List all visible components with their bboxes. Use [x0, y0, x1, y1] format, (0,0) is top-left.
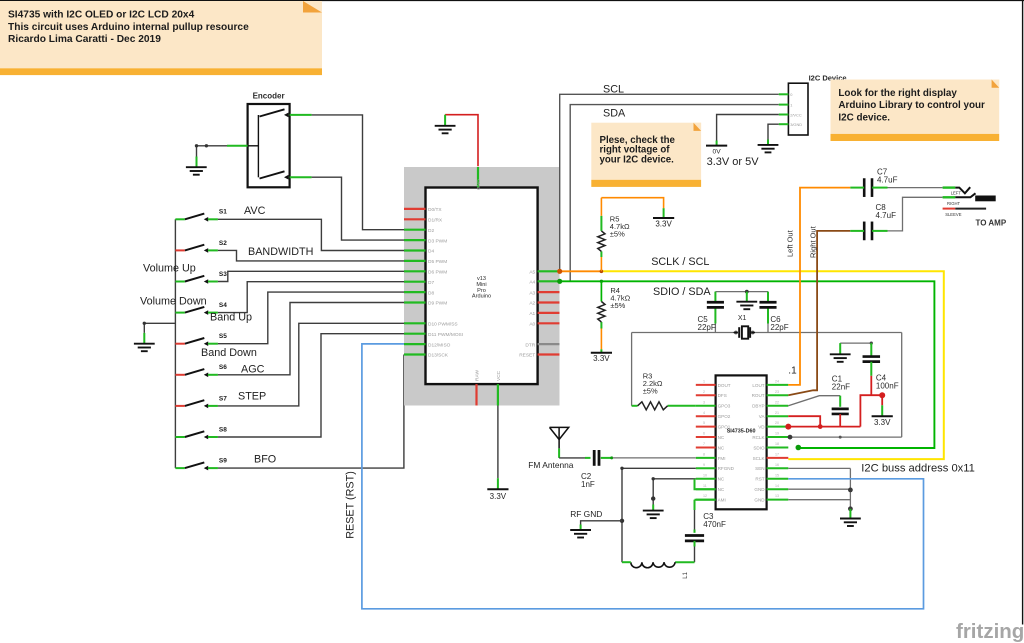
SI4735 pin 8 FMI — [696, 453, 726, 461]
svg-text:2/VCC: 2/VCC — [790, 112, 802, 117]
arduino U2 body — [404, 167, 560, 406]
I2C device U3 body — [788, 83, 808, 135]
wire C4 ground rail — [840, 342, 873, 345]
svg-text:RIGHT: RIGHT — [947, 201, 960, 206]
wire encoder pin B to D3 — [312, 177, 404, 240]
svg-text:NC: NC — [718, 445, 725, 450]
label SDA — [603, 108, 626, 120]
SI4735 pin 24 LOUT — [752, 380, 788, 388]
svg-text:SDIO: SDIO — [753, 445, 765, 450]
svg-text:1: 1 — [790, 102, 792, 107]
SI4735 pin 15 RST — [755, 473, 788, 481]
svg-text:TO AMP: TO AMP — [976, 219, 1007, 228]
wire GND14 gray — [788, 488, 850, 490]
svg-text:I2C buss address 0x11: I2C buss address 0x11 — [861, 463, 975, 475]
svg-text:5: 5 — [703, 421, 705, 425]
svg-text:GPO2: GPO2 — [718, 414, 731, 419]
resistor R5 leads — [600, 198, 602, 272]
label 3.3V or 5V — [707, 156, 760, 168]
junction dot R4 tap — [600, 280, 603, 283]
label I2C buss address — [861, 463, 975, 475]
wire RFGND run — [620, 467, 696, 563]
svg-text:21: 21 — [775, 411, 779, 415]
I2C device pin 0 — [779, 92, 793, 97]
wire C2 to FMI — [601, 456, 696, 459]
svg-text:S7: S7 — [219, 395, 227, 402]
svg-text:D5 PWM: D5 PWM — [428, 259, 447, 265]
svg-text:Volume Down: Volume Down — [140, 296, 207, 308]
wire C4 gnd stem — [839, 343, 841, 354]
ground (switch bank) — [134, 344, 155, 352]
wire S8 to D11 — [218, 334, 404, 437]
wire I2C VCC stem green — [716, 141, 718, 146]
svg-text:D10 PWM/SS: D10 PWM/SS — [428, 322, 458, 328]
svg-text:AMI: AMI — [718, 498, 726, 503]
wire switch bus vertical — [174, 219, 176, 468]
label STEP — [238, 391, 266, 403]
svg-text:SLEEVE: SLEEVE — [945, 212, 962, 217]
right border line — [1022, 0, 1024, 625]
svg-text:8: 8 — [703, 453, 705, 457]
svg-text:I2C device.: I2C device. — [838, 113, 890, 124]
svg-text:fritzing: fritzing — [956, 620, 1024, 643]
svg-text:Arduino Library to control you: Arduino Library to control your — [838, 100, 985, 111]
wire AMI down — [695, 500, 716, 533]
wire C8 to jack RIGHT — [888, 197, 943, 231]
svg-text:18: 18 — [775, 442, 779, 446]
ground (I2C device) — [758, 145, 779, 153]
arduino pin D2 — [404, 228, 434, 234]
ground (SEN/GND) — [840, 519, 861, 527]
wire VCC stem green — [497, 478, 499, 489]
wire RST blue — [362, 344, 924, 609]
svg-text:12: 12 — [703, 494, 707, 498]
svg-text:1: 1 — [703, 380, 705, 384]
svg-text:Volume Up: Volume Up — [143, 263, 196, 275]
arduino pin RAW — [475, 370, 481, 406]
label RESET (RST) — [345, 471, 357, 539]
wire I2C VCC to 0V — [717, 115, 779, 141]
SI4735 pin 5 GPO1 — [696, 421, 731, 429]
svg-text:3.3V: 3.3V — [874, 418, 891, 427]
wire RF GND stem green — [580, 525, 582, 531]
svg-text:STEP: STEP — [238, 391, 266, 403]
label FM Antenna — [528, 460, 574, 470]
svg-text:A5: A5 — [529, 270, 535, 276]
svg-text:D3 PWM: D3 PWM — [428, 238, 447, 244]
SI4735 pin 3 GPO3 — [696, 400, 731, 408]
svg-text:D0/TX: D0/TX — [428, 207, 442, 213]
svg-text:23: 23 — [775, 390, 779, 394]
resistor R3 — [638, 402, 668, 410]
junction dot gnd stem — [848, 506, 853, 511]
svg-text:3/GND: 3/GND — [790, 122, 802, 127]
svg-text:your I2C device.: your I2C device. — [600, 154, 675, 165]
svg-text:S9: S9 — [219, 458, 227, 465]
svg-text:A1: A1 — [529, 311, 535, 317]
capacitor C4 top lead — [870, 343, 872, 356]
svg-text:LOUT: LOUT — [752, 383, 764, 388]
wire encoder pin A stub — [290, 114, 312, 116]
audio jack J1 LEFT stub — [943, 186, 956, 188]
arduino pin D7 — [404, 280, 434, 286]
svg-text:3.3V: 3.3V — [490, 492, 507, 501]
wire encoder common stub — [227, 145, 248, 147]
wire RCLK — [788, 333, 902, 440]
antenna AE1 — [550, 427, 569, 448]
arduino pin D3 PWM — [404, 238, 447, 244]
svg-text:16: 16 — [775, 463, 779, 467]
switch S9 — [175, 458, 227, 471]
capacitor C6 — [759, 302, 776, 307]
label R5 — [610, 215, 630, 239]
wire S1 to D4 — [218, 219, 404, 250]
arduino pin D13/SCK — [404, 353, 449, 359]
switch S7 — [175, 395, 227, 408]
wire L1 right lead — [675, 561, 694, 563]
arduino pin DTR — [525, 342, 559, 348]
svg-text:SEN: SEN — [755, 466, 764, 471]
wire R5 3.3V stem green — [663, 208, 665, 218]
svg-text:GPO3: GPO3 — [718, 404, 731, 409]
capacitor C6 leads — [767, 292, 769, 333]
svg-text:A3: A3 — [529, 290, 535, 296]
SI4735 U1 body — [716, 375, 767, 509]
label C1 — [832, 374, 850, 391]
svg-text:S8: S8 — [219, 426, 227, 433]
label AVC — [244, 205, 266, 217]
wire C1 bottom red — [839, 414, 841, 427]
label BANDWIDTH — [248, 246, 313, 258]
ground (encoder) — [186, 167, 207, 175]
svg-text:FM Antenna: FM Antenna — [528, 460, 574, 470]
capacitor C3 — [685, 536, 704, 541]
arduino pin A3 — [529, 290, 559, 296]
svg-text:This circuit uses Arduino inte: This circuit uses Arduino internal pullu… — [8, 22, 249, 33]
label C6 — [770, 315, 788, 332]
label Volume Down — [140, 296, 207, 308]
junction dot A5/SCL — [557, 269, 562, 274]
junction dot VA-VD — [818, 424, 823, 429]
svg-text:2: 2 — [703, 390, 705, 394]
capacitor C4 bottom lead — [870, 362, 872, 395]
wire VCC down — [497, 406, 499, 479]
svg-text:SI4735 with I2C OLED or I2C LC: SI4735 with I2C OLED or I2C LCD 20x4 — [8, 10, 195, 21]
svg-text:RCLK: RCLK — [752, 435, 765, 440]
svg-text:4.7uF: 4.7uF — [877, 176, 898, 185]
wire crystal gnd stem — [746, 292, 748, 302]
label SCL — [603, 84, 624, 96]
label Volume Up — [143, 263, 196, 275]
svg-text:3.3V or 5V: 3.3V or 5V — [707, 156, 760, 168]
power 3.3V (R4) — [591, 353, 612, 364]
svg-text:S4: S4 — [219, 302, 227, 309]
label AGC — [241, 364, 265, 376]
svg-text:LEFT: LEFT — [951, 191, 962, 196]
switch S4 — [175, 302, 227, 315]
svg-text:6: 6 — [703, 432, 705, 436]
SI4735 pin 17 SCLK — [753, 453, 789, 461]
label SDIO / SDA — [653, 286, 711, 298]
svg-text:±5%: ±5% — [643, 387, 658, 396]
wire switch bus to ground — [143, 322, 176, 333]
svg-text:3: 3 — [703, 400, 705, 404]
capacitor C2 — [594, 450, 599, 466]
label BFO — [254, 454, 276, 466]
wire SEN gray — [788, 468, 850, 509]
wire NC10 to ground — [652, 477, 696, 504]
crystal X1 — [734, 326, 756, 338]
arduino pin A5 — [529, 270, 559, 276]
ground (arduino GND) — [435, 126, 456, 134]
wire S5 to D8 — [218, 292, 404, 344]
audio jack J1 RIGHT stub — [943, 196, 956, 198]
arduino pin D1/RX — [404, 218, 443, 224]
I2C device pin 1 — [779, 102, 793, 107]
svg-text:RST: RST — [755, 477, 764, 482]
SI4735 pin 14 GND — [754, 484, 788, 492]
label C7 — [877, 168, 898, 185]
svg-text:S2: S2 — [219, 240, 227, 247]
svg-text:AGC: AGC — [241, 364, 265, 376]
svg-text:13: 13 — [775, 494, 779, 498]
junction dot A4/SDA — [557, 279, 562, 284]
svg-text:GND: GND — [754, 498, 765, 503]
arduino pin D11 PWM/MOSI — [404, 332, 463, 338]
label L1 — [683, 571, 689, 578]
junction dot NC ground — [651, 496, 655, 500]
svg-text:22pF: 22pF — [698, 323, 716, 332]
wire A4 green to SDIO — [560, 281, 935, 448]
arduino pin D8 — [404, 290, 434, 296]
label C4 — [876, 374, 899, 391]
wire R5 to 3.3V orange — [601, 198, 663, 209]
switch S1 — [175, 209, 227, 222]
label X1 — [738, 315, 747, 322]
note: display library — [831, 80, 1000, 142]
svg-text:FMI: FMI — [718, 456, 726, 461]
svg-text:A2: A2 — [529, 301, 535, 307]
svg-text:Encoder: Encoder — [253, 92, 285, 101]
svg-text:D4: D4 — [428, 249, 434, 255]
svg-text:D11 PWM/MOSI: D11 PWM/MOSI — [428, 332, 463, 338]
svg-text:470nF: 470nF — [703, 520, 726, 529]
wire C7 to jack LEFT — [888, 187, 943, 189]
capacitor C7 leads — [850, 187, 887, 189]
wire C5-C6 top rail — [715, 291, 768, 293]
svg-text:Band Up: Band Up — [210, 312, 252, 324]
power 3.3V (R5) — [653, 218, 674, 229]
SI4735 pin 7 NC — [696, 442, 725, 450]
svg-text:S6: S6 — [219, 364, 227, 371]
svg-text:Look for the right display: Look for the right display — [838, 88, 957, 99]
svg-text:22: 22 — [775, 400, 779, 404]
svg-text:DTR: DTR — [525, 342, 535, 348]
wire S4 to D7 — [218, 282, 404, 313]
wire S2 to D5 — [218, 250, 404, 261]
svg-text:Band Down: Band Down — [201, 347, 257, 359]
audio jack SLEEVE red line — [943, 208, 956, 210]
svg-text:9: 9 — [703, 463, 705, 467]
wire switch ground stem green — [143, 333, 145, 344]
svg-text:SDIO / SDA: SDIO / SDA — [653, 286, 711, 298]
svg-text:22pF: 22pF — [770, 323, 788, 332]
wire GND stem green — [444, 115, 446, 126]
resistor R5 — [598, 231, 605, 252]
wire A5 to R5 orange — [560, 270, 602, 272]
svg-text:3.3V: 3.3V — [593, 354, 610, 363]
svg-text:17: 17 — [775, 453, 779, 457]
svg-text:S5: S5 — [219, 333, 227, 340]
svg-text:SDA: SDA — [603, 108, 626, 120]
label C3 — [703, 512, 726, 529]
svg-text:D6 PWM: D6 PWM — [428, 270, 447, 276]
svg-text:0V: 0V — [713, 149, 722, 156]
SI4735 pin 6 NC — [696, 432, 725, 440]
power 0V — [706, 146, 727, 156]
svg-text:4: 4 — [703, 411, 705, 415]
svg-text:ROUT: ROUT — [752, 393, 765, 398]
svg-text:L1: L1 — [683, 571, 689, 578]
svg-text:.1: .1 — [788, 366, 797, 377]
svg-text:SI4735-D60: SI4735-D60 — [727, 429, 756, 435]
label TO AMP — [976, 219, 1007, 228]
wire encoder pin B stub — [290, 176, 312, 178]
svg-text:VCC: VCC — [496, 370, 502, 381]
SI4735 pin 23 ROUT — [752, 390, 789, 398]
wire S7 to D10 — [218, 323, 404, 406]
fritzing logo — [956, 620, 1024, 643]
I2C device pin 3/GND — [779, 122, 802, 127]
capacitor C8 — [864, 222, 872, 241]
capacitor C5 — [707, 302, 724, 307]
capacitor C1 top lead — [839, 396, 841, 407]
svg-text:S1: S1 — [219, 209, 227, 216]
ground (NC pins) — [643, 511, 664, 518]
SI4735 pin 22 DBYP — [752, 400, 788, 408]
wire LOUT orange — [788, 188, 850, 385]
arduino pin A1 — [529, 311, 559, 317]
svg-text:BFO: BFO — [254, 454, 276, 466]
junction dot RF GND tap — [620, 519, 624, 523]
SI4735 pin 16 SEN — [755, 463, 788, 471]
wire I2C GND to ground — [768, 124, 779, 139]
arduino pin GND top — [476, 167, 482, 190]
svg-text:VD: VD — [758, 425, 765, 430]
svg-text:3.3V: 3.3V — [655, 220, 672, 229]
SI4735 pin 11 NC — [696, 484, 725, 492]
label C2 — [581, 472, 595, 489]
note: voltage warning — [591, 123, 701, 187]
wire crystal line — [632, 333, 902, 406]
svg-text:D12/MISO: D12/MISO — [428, 342, 451, 348]
resistor R4 — [598, 302, 605, 323]
wire L1 left lead — [622, 561, 631, 563]
svg-text:DBYP: DBYP — [752, 404, 765, 409]
resistor R4 leads — [600, 281, 602, 352]
label Band Up — [210, 312, 252, 324]
svg-text:RFGND: RFGND — [718, 466, 735, 471]
switch S2 — [175, 240, 227, 253]
svg-text:100nF: 100nF — [876, 382, 899, 391]
audio jack sleeve line — [955, 208, 986, 210]
svg-text:GND: GND — [754, 487, 765, 492]
SI4735 pin 10 NC — [696, 473, 725, 481]
arduino pin D0/TX — [404, 207, 442, 213]
SI4735 pin 18 SDIO — [753, 442, 788, 450]
ground (crystal) — [736, 302, 757, 310]
label Left Out — [786, 229, 795, 257]
svg-text:24: 24 — [775, 380, 779, 384]
label C5 — [698, 315, 716, 332]
wire SCLK yellow horizontal — [601, 271, 943, 459]
wire SDA — [570, 105, 779, 282]
ground (RF GND) — [570, 530, 591, 538]
capacitor C5 leads — [714, 292, 716, 333]
wire VA red — [788, 416, 820, 426]
svg-text:D8: D8 — [428, 290, 434, 296]
svg-text:7: 7 — [703, 442, 705, 446]
svg-text:SCLK / SCL: SCLK / SCL — [651, 256, 709, 268]
capacitor C7 — [864, 178, 872, 197]
wire VD up red — [860, 395, 882, 426]
svg-text:NC: NC — [718, 477, 725, 482]
wire VD red — [788, 426, 860, 428]
svg-text:NC: NC — [718, 435, 725, 440]
svg-text:X1: X1 — [738, 315, 747, 322]
arduino pin D9 PWM — [404, 301, 447, 307]
SI4735 pin 9 RFGND — [696, 463, 735, 471]
svg-text:Right Out: Right Out — [809, 225, 818, 258]
svg-text:DFS: DFS — [718, 393, 727, 398]
svg-text:14: 14 — [775, 484, 779, 488]
audio jack label SLEEVE — [945, 212, 962, 217]
svg-text:11: 11 — [703, 484, 707, 488]
junction dot 3.3V tap — [879, 392, 885, 398]
svg-text:RAW: RAW — [475, 370, 481, 381]
crystal lead dots — [734, 331, 755, 335]
SI4735 pin 20 VD — [758, 421, 788, 429]
svg-text:Arduino: Arduino — [472, 294, 491, 300]
arduino pin D4 — [404, 249, 434, 255]
capacitor C1 — [832, 409, 849, 414]
wire encoder ground stem green — [196, 157, 198, 168]
resistor R3 leads — [632, 405, 696, 407]
label .1 — [788, 366, 797, 377]
junction dot GND14 — [848, 488, 853, 493]
wire S3 to D6 — [218, 271, 404, 281]
arduino pin A4 — [529, 280, 559, 286]
svg-text:D1/RX: D1/RX — [428, 218, 443, 224]
audio jack label RIGHT — [947, 201, 960, 206]
wire S9 to D13 — [218, 355, 404, 469]
I2C device pin 2/VCC — [779, 112, 802, 117]
ground (C4) — [830, 354, 851, 362]
svg-text:RESET: RESET — [519, 353, 535, 359]
label I2C Device — [809, 74, 847, 83]
svg-text:D7: D7 — [428, 280, 434, 286]
label R4 — [610, 286, 630, 310]
SI4735 pin 2 DFS — [696, 390, 727, 398]
svg-text:±5%: ±5% — [610, 301, 625, 310]
arduino text — [472, 276, 491, 299]
svg-text:4.7uF: 4.7uF — [876, 211, 897, 220]
audio jack J1 tip contact — [955, 187, 970, 193]
audio jack J1 sleeve body — [975, 196, 996, 202]
svg-text:1nF: 1nF — [581, 480, 595, 489]
svg-text:15: 15 — [775, 473, 779, 477]
SI4735 pin 12 AMI — [696, 494, 726, 502]
